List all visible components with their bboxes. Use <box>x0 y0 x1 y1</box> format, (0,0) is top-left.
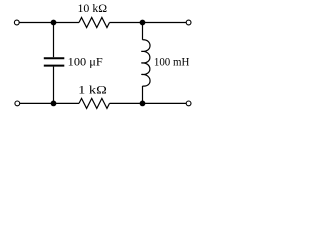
wire left branch lower vertical <box>53 67 55 104</box>
node junction dot bottom-left <box>51 101 57 107</box>
svg-text:10 kΩ: 10 kΩ <box>78 3 108 15</box>
wire top-left horizontal <box>19 22 79 24</box>
resistor R2 1 kOhm zigzag <box>79 98 110 108</box>
terminal bottom-left open circle <box>15 101 20 106</box>
node junction dot top-right <box>140 20 146 26</box>
wire right branch upper vertical <box>142 23 144 40</box>
wire bottom-right horizontal <box>110 102 187 104</box>
wire right branch lower vertical <box>142 86 144 103</box>
svg-text:1 kΩ: 1 kΩ <box>78 84 107 96</box>
svg-text:100 μF: 100 μF <box>68 57 103 69</box>
node junction dot top-left <box>51 20 57 26</box>
capacitor C1 plates <box>44 57 65 59</box>
wire left branch upper vertical <box>53 23 55 58</box>
terminal bottom-right open circle <box>186 101 191 106</box>
svg-text:100 mH: 100 mH <box>154 57 190 69</box>
terminal top-left open circle <box>14 20 19 25</box>
terminal top-right open circle <box>186 20 191 25</box>
inductor L1 coil <box>141 40 150 86</box>
wire top-right horizontal <box>110 22 187 24</box>
node junction dot bottom-right <box>140 101 146 107</box>
resistor R1 10 kOhm zigzag <box>79 18 110 28</box>
wire bottom-left horizontal <box>20 102 80 104</box>
